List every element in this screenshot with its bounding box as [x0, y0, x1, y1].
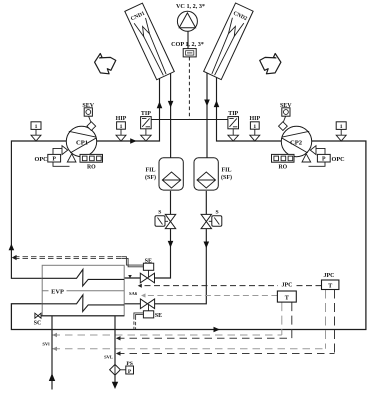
svg-text:RO: RO — [87, 165, 96, 171]
wire JPC right thermostat drop lines — [326, 290, 335, 354]
pressure transmitter TIP2 — [228, 111, 239, 141]
svg-text:RO: RO — [278, 165, 287, 171]
svg-text:P: P — [52, 157, 56, 163]
svg-text:VC 1, 2, 3*: VC 1, 2, 3* — [176, 3, 205, 10]
oil pressure control OPC1 — [35, 146, 77, 167]
high pressure switch HIP1 — [116, 116, 127, 141]
svg-text:P: P — [128, 369, 132, 375]
compressor CP1 — [66, 126, 96, 156]
svg-text:S: S — [158, 210, 161, 216]
pressure transmitter TIP1 — [141, 111, 152, 141]
wire sensing line from JPC right thermostat to coil1 (black dashed) — [128, 275, 321, 288]
wire bottom sensing line 1 (gray dashed to case riser 1) — [52, 333, 281, 337]
svg-text:OPC: OPC — [35, 156, 48, 163]
svg-text:1: 1 — [35, 124, 38, 130]
wire filter FIL2 to solenoid valve S2 — [205, 191, 207, 215]
svg-text:CP2: CP2 — [290, 140, 303, 147]
filter FIL2 — [194, 158, 232, 190]
safety valve SEV2 — [279, 103, 293, 130]
svg-text:1: 1 — [340, 124, 343, 130]
wire expansion valve SE2 to evaporator — [124, 303, 140, 305]
high pressure switch HIP2 — [249, 116, 260, 141]
wire TIP manifold — [151, 119, 228, 121]
svg-text:(SF): (SF) — [221, 174, 232, 181]
pressure switch box 1 right — [336, 122, 346, 141]
wire sensing line from JPC left thermostat (gray dashed) — [141, 293, 277, 297]
svg-text:HIP: HIP — [249, 116, 260, 122]
pressure sensor PS — [110, 361, 134, 376]
svg-text:TIP: TIP — [228, 111, 238, 117]
svg-text:OPC: OPC — [332, 156, 345, 163]
air flow arrow right — [260, 54, 281, 74]
wire dashed COP control line — [188, 57, 190, 120]
evaporator EVP — [36, 265, 124, 316]
svg-text:S: S — [215, 210, 218, 216]
safety valve SEV1 — [82, 103, 95, 130]
air flow arrow left — [95, 54, 116, 74]
condenser CND2 — [204, 3, 253, 80]
crankcase heater RO2 — [272, 154, 295, 170]
wire expansion valve SE1 to evaporator — [124, 277, 140, 279]
svg-text:SVL: SVL — [104, 355, 113, 360]
thermostat JPC left — [277, 281, 296, 302]
wire filter FIL1 to solenoid valve S1 — [170, 191, 172, 215]
svg-text:1: 1 — [253, 124, 256, 130]
wire condenser CND2 to filter FIL2 — [204, 72, 210, 157]
svg-text:1: 1 — [120, 124, 123, 130]
svg-text:FIL: FIL — [221, 168, 231, 174]
svg-text:SC: SC — [34, 321, 42, 327]
svg-text:SVl: SVl — [42, 342, 50, 347]
wire condenser CND1 to filter FIL1 — [168, 74, 174, 158]
fan VC — [176, 3, 205, 31]
svg-text:SE: SE — [155, 313, 162, 319]
thermostat JPC right — [322, 273, 339, 290]
expansion valve SE1 — [140, 258, 154, 283]
wire solenoid valve S1 to expansion valve SE1 — [155, 229, 174, 278]
wire bottom sensing line 4 (dark dashed to case riser 2) — [116, 351, 335, 355]
filter FIL1 — [145, 158, 183, 190]
condenser CND1 — [125, 3, 174, 80]
svg-text:JPC: JPC — [324, 273, 335, 279]
expansion valve SE2 — [140, 299, 162, 319]
drain valve SC — [34, 313, 42, 326]
wire suction evaporator coil1 to CP1 — [9, 141, 67, 278]
svg-text:JPC: JPC — [282, 283, 293, 289]
svg-text:SA6: SA6 — [129, 291, 138, 296]
crankcase heater RO1 — [80, 154, 103, 170]
wire discharge CP1 to condenser CND1 — [97, 78, 163, 143]
wire suction evaporator coil2 around to CP2 — [11, 141, 366, 332]
wire JPC left thermostat drop lines — [282, 302, 292, 338]
wire discharge CP2 to condenser CND2 — [217, 77, 282, 142]
wire capillary from SE1 to suction line (doubled dashed) — [12, 255, 144, 267]
wire capillary from SE2 to suction line (doubled) — [134, 313, 143, 329]
svg-text:P: P — [322, 157, 326, 163]
svg-text:EVP: EVP — [51, 288, 64, 295]
wire bottom sensing line 2 (dark dashed to case riser 2) — [116, 336, 292, 340]
compressor CP2 — [281, 126, 311, 156]
power meter COP — [171, 41, 204, 57]
svg-text:TIP: TIP — [141, 111, 151, 117]
wire bottom sensing line 3 (gray dashed to case riser 1) — [52, 347, 325, 351]
svg-text:(SF): (SF) — [145, 174, 156, 181]
pressure switch box 1 left — [31, 122, 41, 141]
svg-text:FIL: FIL — [145, 168, 155, 174]
wire fan VC to COP meter — [187, 31, 189, 48]
svg-text:CP1: CP1 — [76, 140, 88, 147]
wire solenoid valve S2 to expansion valve SE2 — [155, 229, 210, 304]
svg-text:HIP: HIP — [116, 116, 127, 122]
oil pressure control OPC2 — [302, 146, 345, 167]
wire case riser 2 with PS sensor — [112, 316, 118, 389]
svg-text:COP 1, 2, 3*: COP 1, 2, 3* — [171, 41, 204, 48]
solenoid valve S2 — [201, 210, 222, 229]
solenoid valve S1 — [155, 210, 176, 229]
wire case riser 1 (return from cases) — [49, 316, 55, 390]
